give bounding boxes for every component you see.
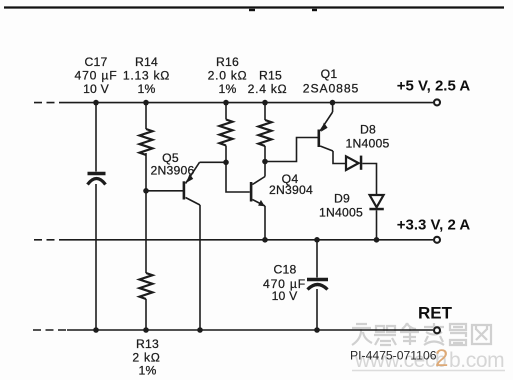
resistor R14 [140, 129, 153, 155]
wire R15 top lead [264, 103, 266, 120]
svg-text:D9: D9 [334, 192, 350, 206]
watermark 元器件交易网 (light gray CJK glyph approximations) [352, 323, 491, 345]
svg-text:R16: R16 [216, 55, 239, 69]
svg-text:1%: 1% [138, 364, 156, 378]
wire Q4 emitter down to +3.3V rail [264, 206, 266, 240]
svg-text:Q1: Q1 [321, 67, 338, 81]
wire Q5 emitter to R16 bottom [200, 161, 227, 163]
wire Q5 base [146, 190, 184, 192]
label C17 470uF 10V [75, 55, 118, 96]
wire R13 bottom lead [145, 299, 147, 330]
wire C17 column bottom [95, 184, 97, 330]
wire D9 cathode to +3.3V rail [376, 210, 378, 240]
svg-text:1.13 kΩ: 1.13 kΩ [123, 69, 170, 83]
svg-text:+3.3 V, 2 A: +3.3 V, 2 A [397, 217, 471, 234]
svg-text:2 kΩ: 2 kΩ [132, 351, 160, 365]
svg-text:R13: R13 [136, 337, 159, 351]
label R13 2k 1% [132, 337, 160, 378]
junction dot C18 on RET rail [314, 327, 320, 333]
label D9 1N4005 [319, 192, 363, 220]
top separator line (cropped figure above) [4, 6, 504, 8]
svg-text:C18: C18 [274, 263, 297, 277]
wire Q1 emitter to +5V rail [332, 103, 334, 112]
junction dot R13 on RET rail [143, 327, 149, 333]
svg-text:1%: 1% [218, 82, 236, 96]
wire Q4 collector up to junction [264, 162, 266, 177]
junction dot R14/Q5 base [143, 188, 149, 194]
junction dot R15/Q4 collector [262, 159, 268, 165]
wire Q1 collector to D8 [333, 151, 346, 164]
junction dot Q1 emitter on rail [330, 100, 336, 106]
wire C18 bottom lead [316, 289, 318, 330]
label Q4 2N3904 [269, 172, 313, 197]
wire C17 column top [95, 103, 97, 172]
resistor R13 [140, 273, 153, 299]
svg-text:2SA0885: 2SA0885 [303, 82, 359, 96]
svg-text:2.0 kΩ: 2.0 kΩ [208, 69, 248, 83]
svg-text:2: 2 [435, 345, 448, 372]
wire R15 bottom lead [264, 146, 266, 162]
svg-text:RET: RET [418, 304, 453, 323]
junction dot R15 on +5V rail [262, 100, 268, 106]
svg-text:C17: C17 [85, 55, 108, 69]
svg-text:b.com: b.com [449, 349, 504, 372]
wire R16 top lead [225, 103, 227, 120]
svg-text:2N3904: 2N3904 [269, 183, 313, 197]
node +3.3V rail [34, 239, 433, 241]
label C18 470uF 10V [263, 263, 306, 304]
svg-text:PI-4475-071106: PI-4475-071106 [350, 349, 437, 363]
svg-text:1N4005: 1N4005 [319, 206, 363, 220]
diode D8 [346, 156, 362, 170]
junction dot C18 on +3.3V rail [314, 237, 320, 243]
label Q5 2N3906 [151, 151, 195, 178]
junction dot C17 on +5V rail [93, 100, 99, 106]
svg-text:D8: D8 [360, 123, 376, 137]
svg-text:10 V: 10 V [83, 82, 110, 96]
label R15 2.4k [248, 69, 288, 97]
svg-text:2.4 kΩ: 2.4 kΩ [248, 82, 288, 96]
junction dot R16/Q5 [223, 160, 229, 166]
terminal RET [434, 327, 440, 333]
junction dot R16 on +5V rail [223, 100, 229, 106]
transistor Q1 [318, 112, 334, 151]
junction dot Q5 collector on RET rail [197, 327, 203, 333]
wire R16 junction to Q4 base [226, 162, 250, 192]
wire R14 top lead [145, 103, 147, 129]
wire D8 cathode to D9 anode [362, 164, 376, 196]
junction dot Q4 emitter on rail [262, 237, 268, 243]
svg-text:2N3906: 2N3906 [151, 164, 195, 178]
diode D9 [369, 195, 383, 210]
svg-text:1%: 1% [137, 82, 155, 96]
wire R16 bottom lead [225, 146, 227, 163]
junction dot D9 on rail [374, 237, 380, 243]
label R14 1.13k 1% [123, 55, 170, 96]
transistor Q5 [183, 162, 200, 205]
svg-text:10 V: 10 V [272, 289, 299, 303]
resistor R16 [220, 120, 233, 146]
transistor Q4 [250, 177, 265, 207]
svg-text:+5 V, 2.5 A: +5 V, 2.5 A [397, 78, 471, 95]
resistor R15 [259, 120, 272, 146]
wire R14 to R13 column [145, 153, 147, 273]
terminal +3.3V [434, 237, 440, 243]
label Q1 2SA0885 [303, 67, 359, 96]
wire C18 top lead [316, 240, 318, 278]
label R16 2.0k 1% [208, 55, 248, 96]
capacitor C18 [307, 280, 328, 290]
node RET rail [33, 329, 433, 331]
label D8 1N4005 [346, 123, 390, 151]
capacitor C17 [88, 174, 106, 185]
svg-text:R14: R14 [135, 55, 158, 69]
svg-text:1N4005: 1N4005 [346, 137, 390, 151]
terminal +5V [434, 99, 440, 105]
wire Q5 collector column [199, 205, 201, 330]
svg-text:470 µF: 470 µF [75, 69, 118, 83]
svg-text:R15: R15 [259, 69, 282, 83]
junction dot R14 on +5V rail [143, 100, 149, 106]
wire R15 junction to Q1 base [265, 138, 318, 162]
node +5V rail [34, 102, 433, 104]
junction dot C17 on RET rail [93, 327, 99, 333]
